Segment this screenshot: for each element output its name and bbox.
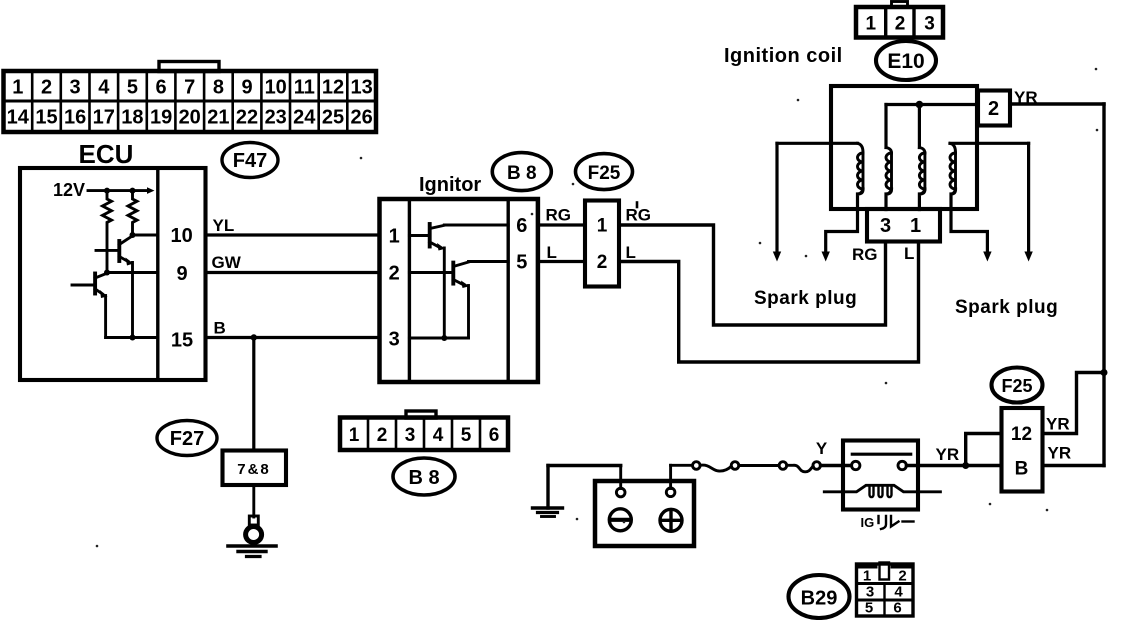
svg-text:12V: 12V (53, 180, 85, 200)
svg-text:1: 1 (863, 568, 871, 585)
svg-text:2: 2 (389, 262, 400, 284)
svg-text:F25: F25 (1001, 376, 1032, 396)
svg-text:24: 24 (293, 107, 316, 129)
svg-text:14: 14 (7, 107, 30, 129)
svg-text:6: 6 (893, 600, 901, 617)
svg-text:13: 13 (350, 77, 372, 99)
svg-text:RG: RG (852, 245, 878, 264)
svg-text:2: 2 (895, 14, 906, 35)
svg-text:L: L (904, 244, 914, 263)
svg-text:1: 1 (389, 225, 400, 247)
svg-text:3: 3 (924, 14, 935, 35)
svg-text:1: 1 (349, 425, 360, 446)
svg-text:4: 4 (433, 425, 444, 446)
svg-text:RG: RG (546, 206, 572, 225)
svg-text:1: 1 (12, 77, 23, 99)
svg-text:20: 20 (179, 107, 201, 129)
svg-text:2: 2 (41, 77, 52, 99)
svg-text:10: 10 (170, 225, 192, 247)
svg-text:3: 3 (389, 329, 400, 351)
svg-text:10: 10 (265, 77, 287, 99)
svg-text:25: 25 (322, 107, 344, 129)
svg-text:15: 15 (171, 330, 193, 352)
svg-text:B29: B29 (801, 588, 838, 610)
svg-text:9: 9 (176, 263, 187, 285)
svg-text:F25: F25 (588, 163, 621, 184)
svg-text:23: 23 (265, 107, 287, 129)
svg-text:2: 2 (377, 425, 388, 446)
svg-text:6: 6 (516, 215, 527, 237)
svg-text:RG: RG (626, 206, 652, 225)
svg-text:5: 5 (461, 425, 472, 446)
svg-text:12: 12 (1011, 424, 1032, 445)
svg-text:16: 16 (64, 107, 86, 129)
svg-text:F47: F47 (233, 150, 267, 172)
svg-text:YR: YR (1046, 415, 1070, 434)
svg-text:4: 4 (894, 584, 903, 601)
svg-text:B 8: B 8 (507, 163, 537, 184)
svg-text:4: 4 (98, 77, 110, 99)
svg-text:YL: YL (213, 216, 235, 235)
svg-text:11: 11 (294, 77, 315, 99)
svg-text:3: 3 (70, 77, 81, 99)
svg-text:21: 21 (207, 107, 229, 129)
svg-text:Ignition coil: Ignition coil (724, 45, 843, 67)
svg-text:6: 6 (156, 77, 167, 99)
svg-text:E10: E10 (887, 50, 924, 73)
svg-text:26: 26 (350, 107, 372, 129)
svg-text:2: 2 (988, 98, 999, 120)
svg-text:6: 6 (489, 425, 500, 446)
svg-text:GW: GW (212, 253, 242, 272)
svg-text:5: 5 (865, 600, 873, 617)
svg-text:B: B (214, 319, 226, 338)
svg-text:Spark plug: Spark plug (955, 297, 1058, 318)
svg-text:18: 18 (121, 107, 143, 129)
svg-text:5: 5 (516, 252, 527, 274)
svg-text:1: 1 (597, 216, 608, 237)
svg-text:2: 2 (898, 568, 906, 585)
svg-text:ECU: ECU (79, 139, 134, 169)
svg-text:19: 19 (150, 107, 172, 129)
svg-text:L: L (547, 243, 557, 262)
svg-text:L: L (626, 243, 636, 262)
svg-text:3: 3 (866, 584, 874, 601)
svg-text:1: 1 (910, 215, 921, 237)
svg-text:1: 1 (866, 14, 877, 35)
svg-text:YR: YR (1048, 444, 1072, 463)
svg-text:15: 15 (35, 107, 57, 129)
svg-text:Ignitor: Ignitor (419, 174, 481, 196)
svg-text:Y: Y (816, 439, 828, 458)
svg-text:IG: IG (861, 515, 875, 530)
svg-text:8: 8 (213, 77, 224, 99)
svg-text:22: 22 (236, 107, 258, 129)
svg-text:17: 17 (93, 107, 115, 129)
svg-text:F27: F27 (170, 428, 204, 450)
svg-text:9: 9 (241, 77, 252, 99)
svg-text:5: 5 (127, 77, 138, 99)
svg-text:3: 3 (880, 215, 891, 237)
svg-text:B: B (1015, 459, 1029, 480)
svg-text:7&8: 7&8 (237, 461, 271, 478)
svg-text:12: 12 (322, 77, 344, 99)
svg-text:B 8: B 8 (408, 467, 439, 489)
svg-text:YR: YR (936, 445, 960, 464)
svg-text:3: 3 (405, 425, 416, 446)
svg-text:Spark plug: Spark plug (754, 288, 857, 309)
svg-text:2: 2 (597, 252, 608, 273)
svg-text:7: 7 (184, 77, 195, 99)
